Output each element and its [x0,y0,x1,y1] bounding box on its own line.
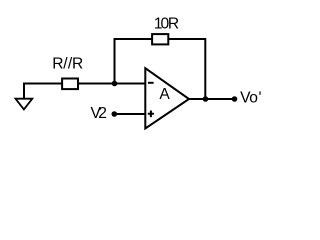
node inverting input junction [112,81,118,87]
op-amp A non-inverting input (+) mark [148,111,154,118]
wire resistor R//R to op-amp inverting input [79,83,146,85]
wire V2 to op-amp non-inverting input [114,113,145,115]
resistor 10R [152,34,168,44]
terminal Vo' [232,96,238,102]
svg-text:V2: V2 [91,105,107,122]
wire feedback left vertical [115,39,152,84]
terminal V2 [112,111,118,117]
wire 10R to output node [169,39,206,99]
node output junction [203,96,209,102]
svg-text:R//R: R//R [52,56,83,73]
svg-text:Vo': Vo' [240,90,261,107]
svg-text:10R: 10R [154,15,179,32]
op-amp A inverting input (-) mark [148,82,154,84]
svg-text:A: A [159,86,170,103]
ground [16,84,62,110]
op-amp A [145,68,189,128]
wire output [189,98,235,100]
resistor R//R [62,79,78,90]
